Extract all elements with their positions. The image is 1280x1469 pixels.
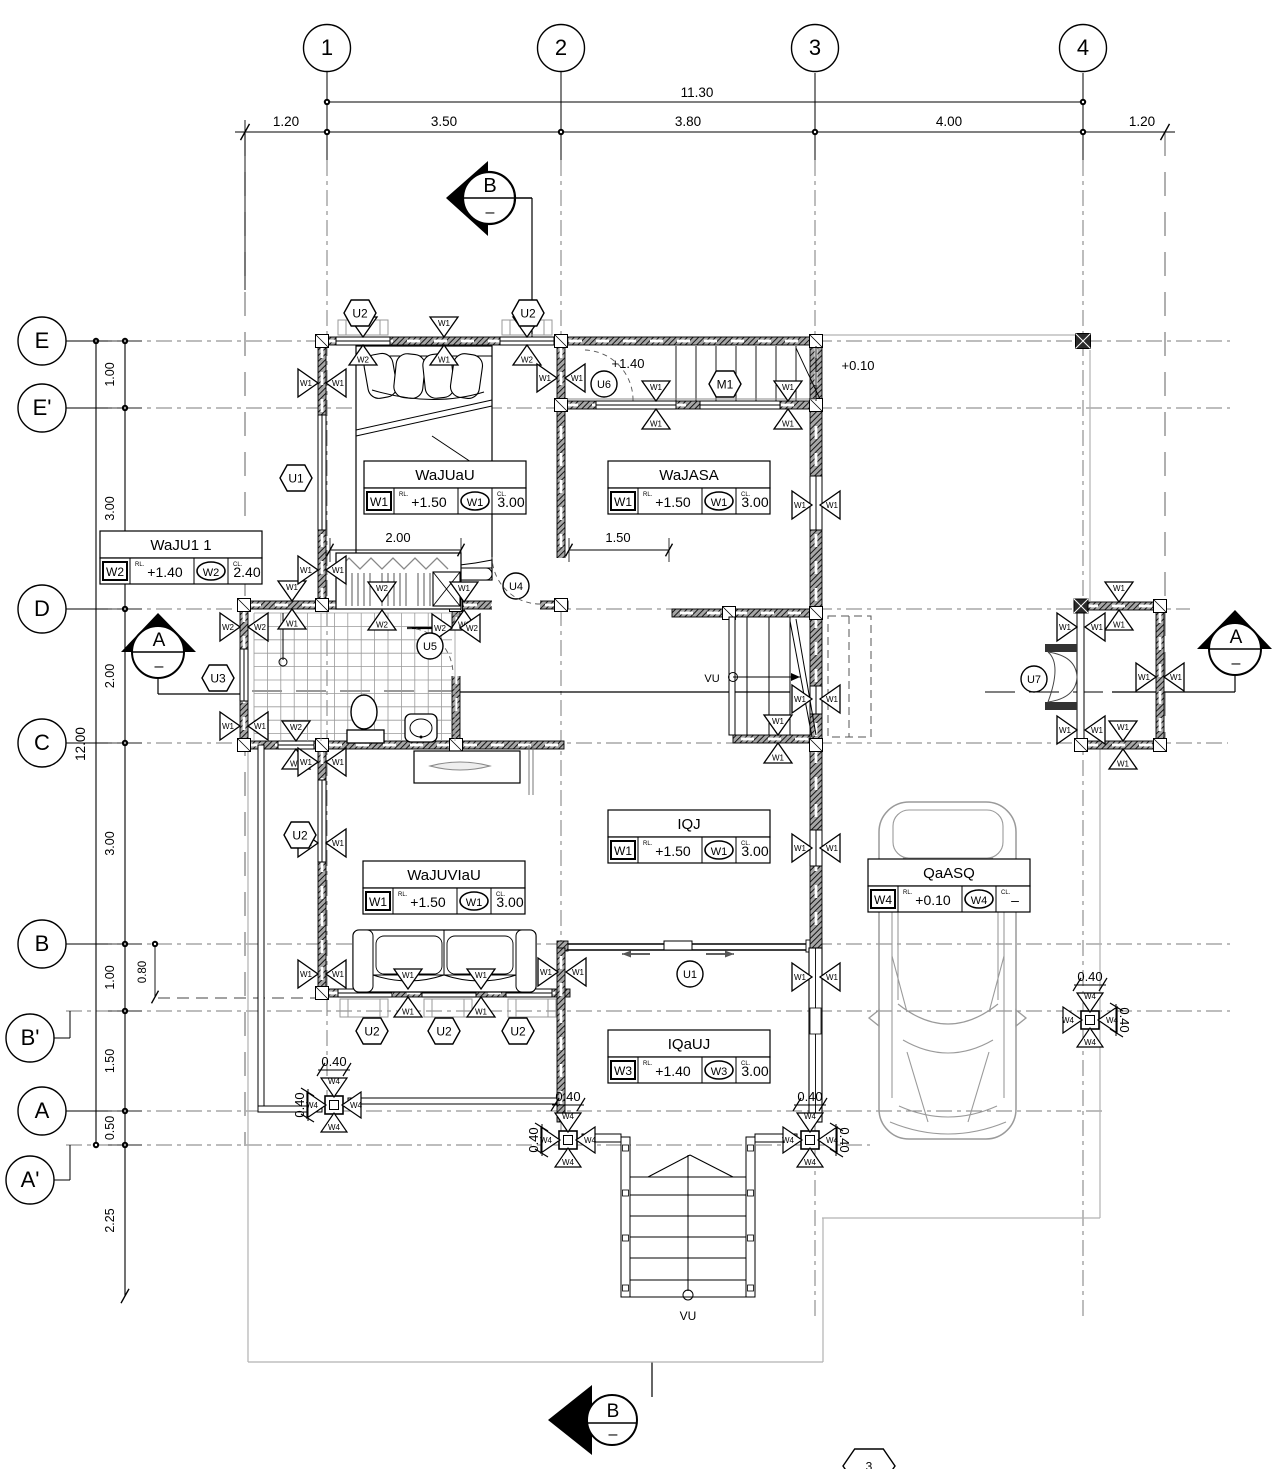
svg-text:W1: W1	[438, 356, 451, 365]
svg-text:A: A	[35, 1098, 50, 1123]
column marker W4	[540, 1112, 597, 1167]
svg-text:3.00: 3.00	[103, 496, 117, 520]
window sill dashes above bedroom windows	[338, 320, 552, 335]
svg-text:CL.: CL.	[1001, 890, 1011, 896]
wall bathroom left	[240, 601, 248, 749]
wardrobe	[336, 553, 461, 609]
tag hexagon	[709, 371, 741, 397]
svg-text:A: A	[153, 630, 166, 651]
sub dimension 0.80	[137, 941, 159, 1004]
svg-text:RL.: RL.	[399, 492, 409, 498]
svg-text:VU: VU	[680, 1309, 697, 1323]
window symbol W1 bowtie	[220, 712, 268, 740]
svg-text:A: A	[1230, 627, 1243, 648]
window W2 bathroom bottom	[278, 741, 314, 750]
grid row line D	[66, 608, 1190, 610]
svg-text:0.40: 0.40	[1077, 969, 1102, 984]
svg-text:–: –	[1232, 655, 1241, 672]
porch beam left	[348, 1098, 557, 1104]
grid bubble row E'	[18, 384, 108, 432]
grid column line 4	[1082, 73, 1084, 1320]
shower corner	[279, 613, 287, 666]
svg-text:W4: W4	[1106, 1016, 1119, 1025]
tag circle door	[503, 573, 529, 599]
svg-text:+1.50: +1.50	[655, 494, 691, 510]
svg-text:3: 3	[809, 35, 821, 60]
svg-text:–: –	[1011, 892, 1019, 908]
svg-text:W2: W2	[376, 584, 389, 593]
room label bedroom	[364, 461, 526, 514]
svg-text:1.50: 1.50	[605, 530, 630, 545]
column marker W4	[306, 1077, 363, 1132]
tag hexagon	[512, 300, 544, 326]
grid bubble column 2	[538, 25, 585, 72]
window symbol W1 bowtie	[1057, 716, 1105, 744]
wall post	[810, 335, 823, 348]
svg-text:W1: W1	[711, 497, 728, 509]
svg-text:W4: W4	[328, 1123, 341, 1132]
svg-text:U2: U2	[510, 1025, 526, 1039]
wall post	[316, 739, 329, 752]
svg-text:W1: W1	[650, 383, 663, 392]
svg-text:W1: W1	[794, 973, 807, 982]
svg-text:W1: W1	[402, 1008, 415, 1017]
car	[869, 802, 1026, 1139]
svg-text:2.00: 2.00	[103, 664, 117, 688]
wall right room bottom	[1077, 741, 1164, 749]
wall post	[810, 399, 823, 412]
wall exterior top row E	[318, 337, 822, 345]
svg-text:W4: W4	[804, 1158, 817, 1167]
garage post top	[1076, 334, 1091, 349]
svg-text:RL.: RL.	[135, 562, 145, 568]
svg-text:W1: W1	[794, 501, 807, 510]
svg-text:W1: W1	[332, 970, 345, 979]
wall post	[555, 599, 568, 612]
porch beam mid-right	[755, 1134, 797, 1142]
section marker A left	[121, 613, 240, 694]
garage outline	[822, 335, 1100, 1218]
svg-text:W1: W1	[300, 970, 313, 979]
wall post	[238, 739, 251, 752]
sofa	[353, 930, 536, 992]
toilet	[347, 695, 384, 743]
wall left exterior living	[318, 743, 326, 997]
wall post	[316, 335, 329, 348]
wall right exterior	[810, 337, 822, 948]
svg-text:1.20: 1.20	[1129, 114, 1155, 129]
window symbol W2 bowtie	[220, 613, 268, 641]
tag hexagon	[502, 1018, 534, 1044]
door opening row D	[492, 600, 540, 610]
svg-text:W1: W1	[1113, 584, 1126, 593]
setback line left	[244, 132, 246, 1146]
tag circle door	[417, 633, 443, 659]
window symbol W2 hourglass	[282, 721, 310, 769]
window symbol W1 bowtie	[298, 829, 346, 857]
svg-text:W1: W1	[254, 722, 267, 731]
wall post	[555, 399, 568, 412]
wall post	[810, 607, 823, 620]
svg-text:W3: W3	[614, 1064, 632, 1078]
svg-text:W1: W1	[438, 319, 451, 328]
window symbol W1 hourglass	[450, 582, 478, 630]
svg-text:W4: W4	[874, 893, 892, 907]
svg-text:4.00: 4.00	[936, 114, 962, 129]
svg-text:W1: W1	[772, 754, 785, 763]
level +1.40 rear porch	[612, 356, 645, 371]
0.40 dims	[292, 969, 1132, 1157]
svg-text:W1: W1	[332, 566, 345, 575]
bathroom tile grid	[254, 613, 455, 741]
svg-text:W1: W1	[300, 566, 313, 575]
wall porch right railing	[809, 948, 822, 1122]
svg-text:W1: W1	[826, 844, 839, 853]
grid bubble row B	[18, 920, 108, 968]
grid row line B'	[66, 1010, 1230, 1012]
window symbol W1 hourglass	[774, 381, 802, 429]
tag hexagon	[356, 1018, 388, 1044]
svg-text:3.00: 3.00	[741, 843, 768, 859]
svg-text:2.25: 2.25	[103, 1208, 117, 1232]
grid row line A'	[66, 1144, 870, 1146]
svg-text:1.00: 1.00	[103, 362, 117, 386]
svg-text:W4: W4	[804, 1112, 817, 1121]
svg-text:W1: W1	[286, 583, 299, 592]
window symbol W1 hourglass	[467, 969, 495, 1017]
svg-text:U4: U4	[509, 581, 523, 593]
grid bubble row A	[18, 1087, 108, 1135]
svg-text:W2: W2	[203, 567, 220, 579]
dimension 1.50 hall opening	[566, 530, 673, 562]
svg-text:B: B	[483, 175, 496, 197]
garage dashed recess	[828, 616, 871, 737]
svg-text:W1: W1	[332, 758, 345, 767]
window symbol W2 hourglass	[349, 317, 377, 365]
tag hexagon	[284, 822, 316, 848]
svg-text:W1: W1	[402, 971, 415, 980]
svg-text:WaJASA: WaJASA	[659, 467, 718, 484]
svg-text:3.00: 3.00	[497, 494, 524, 510]
svg-text:W4: W4	[1084, 992, 1097, 1001]
svg-text:W4: W4	[562, 1158, 575, 1167]
svg-text:RL.: RL.	[643, 1061, 653, 1067]
svg-text:W1: W1	[571, 374, 584, 383]
svg-text:–: –	[155, 658, 164, 675]
svg-text:W1: W1	[1138, 673, 1151, 682]
overall dimension 11.30	[324, 85, 1086, 105]
svg-text:D: D	[34, 596, 50, 621]
svg-text:VU: VU	[704, 673, 719, 685]
svg-text:0.40: 0.40	[292, 1092, 307, 1117]
svg-text:0.40: 0.40	[555, 1089, 580, 1104]
svg-text:W1: W1	[794, 844, 807, 853]
room label porch	[608, 1030, 770, 1083]
svg-text:W1: W1	[466, 897, 483, 909]
room label living	[363, 861, 525, 914]
svg-text:W4: W4	[1084, 1038, 1097, 1047]
svg-text:W1: W1	[826, 695, 839, 704]
grid column line 1	[326, 71, 328, 1110]
grid row line E	[66, 340, 1230, 342]
svg-text:W1: W1	[1091, 623, 1104, 632]
window W2 top wall right	[500, 337, 554, 346]
svg-text:RL.: RL.	[398, 892, 408, 898]
svg-text:W3: W3	[711, 1066, 728, 1078]
svg-text:0.40: 0.40	[797, 1089, 822, 1104]
svg-text:IQaUJ: IQaUJ	[668, 1036, 711, 1053]
grid bubble row D	[18, 585, 108, 633]
svg-text:W1: W1	[772, 717, 785, 726]
svg-text:3.50: 3.50	[431, 114, 457, 129]
svg-text:11.30: 11.30	[681, 85, 714, 100]
svg-text:U5: U5	[423, 641, 437, 653]
svg-text:W1: W1	[332, 379, 345, 388]
setback line right	[1164, 132, 1166, 752]
wall post	[723, 607, 736, 620]
svg-text:W1: W1	[286, 620, 299, 629]
svg-text:W2: W2	[466, 624, 479, 633]
svg-text:RL.: RL.	[903, 890, 913, 896]
staircase exterior entry	[621, 1137, 755, 1323]
window symbol W1 hourglass	[1105, 582, 1133, 630]
svg-text:B: B	[35, 931, 50, 956]
svg-text:W1: W1	[711, 846, 728, 858]
terrace outline bottom	[248, 745, 823, 1362]
svg-text:U2: U2	[520, 307, 536, 321]
svg-text:0.50: 0.50	[103, 1116, 117, 1140]
window right wall kitchen	[810, 476, 823, 530]
svg-text:+1.40: +1.40	[655, 1063, 691, 1079]
bed	[356, 346, 492, 580]
svg-text:U7: U7	[1027, 674, 1041, 686]
dark post room corner	[1074, 599, 1088, 613]
svg-text:W1: W1	[1059, 623, 1072, 632]
tag hexagon	[344, 300, 376, 326]
window symbol W1 bowtie	[537, 364, 585, 392]
svg-text:W1: W1	[300, 379, 313, 388]
level +0.10 garage	[842, 358, 875, 373]
window symbol W1 hourglass	[430, 317, 458, 365]
grid row line C	[66, 742, 1228, 744]
grid bubble column 4	[1060, 25, 1107, 72]
svg-text:W1: W1	[1117, 760, 1130, 769]
svg-text:W2: W2	[222, 623, 235, 632]
door opening bedroom	[556, 558, 566, 604]
svg-text:W1: W1	[458, 584, 471, 593]
wall post	[450, 599, 463, 612]
svg-text:QaASQ: QaASQ	[923, 865, 975, 882]
svg-text:4: 4	[1077, 35, 1089, 60]
wall right room left	[1045, 602, 1084, 749]
section marker A right	[1112, 610, 1272, 692]
grid bubble column 1	[304, 25, 351, 72]
tv cabinet	[414, 751, 520, 783]
wall post	[810, 739, 823, 752]
window symbol W1 bowtie	[792, 834, 840, 862]
svg-text:W1: W1	[1170, 673, 1183, 682]
svg-text:0.40: 0.40	[1117, 1007, 1132, 1032]
tag hexagon	[280, 465, 312, 491]
room label carport	[868, 859, 1030, 912]
svg-text:3.00: 3.00	[741, 1063, 768, 1079]
svg-text:B': B'	[21, 1025, 40, 1050]
window symbol W2 bowtie	[432, 614, 480, 642]
svg-text:WaJU1 1: WaJU1 1	[150, 537, 211, 554]
svg-text:C: C	[34, 730, 50, 755]
svg-text:W1: W1	[1117, 723, 1130, 732]
window symbol W1 hourglass	[1109, 721, 1137, 769]
room label hall	[608, 810, 770, 863]
wall row D bedroom-bathroom	[240, 601, 568, 609]
window W1 living bottom 1	[338, 989, 392, 998]
svg-text:W4: W4	[971, 895, 988, 907]
svg-text:W1: W1	[540, 968, 553, 977]
offset dashed line 0.80	[158, 997, 320, 999]
window symbol W1 bowtie	[538, 958, 586, 986]
svg-text:3.00: 3.00	[496, 894, 523, 910]
svg-text:W1: W1	[782, 420, 795, 429]
window symbol W1 bowtie	[792, 685, 840, 713]
window symbol W1 bowtie	[792, 491, 840, 519]
svg-text:W1: W1	[826, 501, 839, 510]
window symbol W1 bowtie	[298, 960, 346, 988]
grid bubble row B'	[6, 1011, 70, 1062]
svg-text:WaJUaU: WaJUaU	[415, 467, 474, 484]
terrace deck edge left	[258, 745, 322, 1112]
svg-text:W1: W1	[370, 495, 388, 509]
wall stair bottom	[733, 735, 816, 743]
svg-text:W2: W2	[521, 356, 534, 365]
svg-text:W4: W4	[584, 1136, 597, 1145]
wall stair top	[672, 609, 816, 617]
room label bathroom	[100, 531, 262, 584]
left dimension line rows	[103, 338, 142, 1303]
dimension 2.00 bathroom	[327, 530, 465, 562]
svg-text:M1: M1	[717, 378, 734, 392]
svg-text:W4: W4	[562, 1112, 575, 1121]
door leaf bathroom	[407, 628, 453, 674]
svg-text:W2: W2	[290, 723, 303, 732]
svg-text:E': E'	[33, 395, 52, 420]
window bathroom left wall	[240, 649, 249, 701]
svg-text:W4: W4	[826, 1136, 839, 1145]
svg-text:W1: W1	[332, 839, 345, 848]
window left wall living	[318, 780, 327, 862]
wash basin	[405, 714, 437, 742]
grid bubble row C	[18, 719, 108, 767]
svg-text:W2: W2	[357, 356, 370, 365]
wall kitchen row E-prime	[557, 401, 822, 409]
svg-text:W1: W1	[467, 497, 484, 509]
grid bubble row E	[18, 317, 108, 365]
svg-text:+1.50: +1.50	[411, 494, 447, 510]
tag circle door	[1021, 666, 1047, 692]
svg-text:2: 2	[555, 35, 567, 60]
svg-text:W1: W1	[1113, 621, 1126, 630]
window symbol W1 hourglass	[278, 581, 306, 629]
wall porch left	[557, 948, 565, 1122]
svg-text:W1: W1	[475, 971, 488, 980]
svg-text:W1: W1	[539, 374, 552, 383]
window left wall bedroom	[318, 415, 327, 530]
svg-text:W1: W1	[572, 968, 585, 977]
door swing rear porch	[585, 350, 633, 401]
grid bubble column 3	[792, 25, 839, 72]
kitchen rear deck boards	[567, 346, 820, 401]
window symbol W2 hourglass	[513, 317, 541, 365]
svg-text:1.50: 1.50	[103, 1049, 117, 1073]
grid column line 2	[560, 71, 562, 1150]
porch beam mid-left	[582, 1134, 621, 1142]
svg-text:+0.10: +0.10	[915, 892, 951, 908]
svg-text:W1: W1	[614, 844, 632, 858]
svg-text:E: E	[35, 328, 50, 353]
tag hexagon	[202, 665, 234, 691]
grid bubble row A'	[6, 1145, 70, 1204]
svg-text:W1: W1	[1059, 726, 1072, 735]
svg-text:W2: W2	[254, 623, 267, 632]
window symbol W1 hourglass	[642, 381, 670, 429]
svg-text:U2: U2	[292, 829, 308, 843]
svg-text:1: 1	[321, 35, 333, 60]
detail hexagon 3	[843, 1449, 895, 1469]
wall post	[1154, 600, 1167, 613]
svg-text:–: –	[609, 1426, 618, 1443]
svg-text:W1: W1	[1091, 726, 1104, 735]
svg-text:W1: W1	[614, 495, 632, 509]
wall right room top	[1077, 602, 1164, 610]
svg-text:RL.: RL.	[643, 841, 653, 847]
svg-text:U1: U1	[288, 472, 304, 486]
wall bathroom bottom row C	[240, 741, 564, 749]
svg-text:A': A'	[21, 1167, 40, 1192]
wall interior bedroom-kitchen	[557, 337, 565, 609]
beam row B with sliding door	[557, 940, 822, 958]
svg-text:W1: W1	[475, 1008, 488, 1017]
wall post	[316, 599, 329, 612]
window sills below living windows	[340, 999, 556, 1017]
svg-text:B: B	[607, 1401, 620, 1422]
svg-text:W1: W1	[782, 383, 795, 392]
svg-text:W2: W2	[434, 624, 447, 633]
top dimension line 1.20/3.50/3.80/4.00/1.20	[235, 114, 1175, 290]
staircase interior	[704, 617, 816, 737]
window W2 top wall left	[336, 337, 390, 346]
section cut line A	[252, 691, 1112, 692]
window symbol W1 hourglass	[764, 715, 792, 763]
svg-text:3.00: 3.00	[103, 831, 117, 855]
svg-text:U6: U6	[597, 379, 611, 391]
svg-text:1.00: 1.00	[103, 965, 117, 989]
window symbol W1 bowtie	[1057, 613, 1105, 641]
floor edge hall	[529, 745, 533, 795]
column marker W4	[782, 1112, 839, 1167]
svg-text:+0.10: +0.10	[842, 358, 875, 373]
svg-text:+1.50: +1.50	[410, 894, 446, 910]
wall living bottom	[318, 989, 570, 997]
double door right room	[1048, 652, 1077, 702]
svg-text:3.80: 3.80	[675, 114, 701, 129]
grid row line E'	[66, 407, 1230, 409]
svg-text:W1: W1	[300, 758, 313, 767]
svg-text:0.40: 0.40	[837, 1127, 852, 1152]
tag circle door	[677, 961, 703, 987]
window symbol W1 hourglass	[394, 969, 422, 1017]
svg-text:W1: W1	[826, 973, 839, 982]
wall bathroom right	[452, 609, 460, 741]
window symbol W1 bowtie	[1136, 663, 1184, 691]
